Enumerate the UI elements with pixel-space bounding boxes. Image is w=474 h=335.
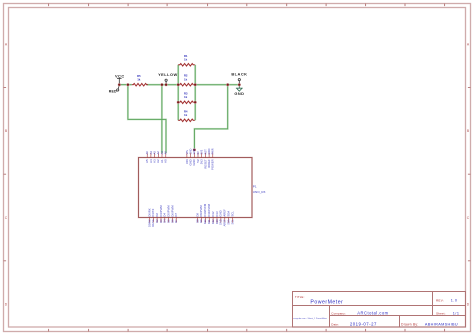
wire: net GND segment rail to BLACK [195,84,239,86]
svg-text:IORF: IORF [207,148,211,155]
svg-text:D6: D6 [170,219,174,223]
power flag VCC [117,78,122,84]
wire: main net VCC segment [119,84,132,86]
wire: GND branch down to GND pin [194,85,227,151]
svg-text:A3: A3 [153,151,157,155]
svg-text:C: C [5,216,8,220]
border ruler ticks bottom [49,329,445,332]
svg-text:SDA: SDA [227,219,231,225]
svg-text:D10: D10 [203,219,207,224]
svg-text:2019-07-27: 2019-07-27 [350,321,377,326]
svg-text:D2: D2 [155,219,159,223]
svg-text:A2: A2 [156,151,160,155]
svg-text:Drawn By:: Drawn By: [401,322,418,326]
svg-text:B: B [467,129,470,133]
title block frame [293,292,466,328]
border ruler ticks right [468,88,471,261]
title block texts [293,295,459,326]
svg-text:1.0: 1.0 [451,299,458,303]
pin YELLOW [165,79,167,85]
wire: left rail of resistor bank [177,65,179,121]
svg-text:YELLOW: YELLOW [158,72,178,77]
ground GND [236,85,243,92]
svg-text:GND: GND [189,149,193,155]
svg-text:POWER: POWER [211,159,215,170]
svg-text:GND: GND [192,149,196,155]
svg-text:1k: 1k [184,95,188,99]
border row letters right [467,43,470,307]
svg-text:D7: D7 [174,213,178,217]
svg-text:Company:: Company: [331,311,346,315]
svg-text:D5: D5 [167,219,171,223]
pins top-right power group [187,153,213,158]
pins top-left A5-A0 [147,153,166,158]
svg-text:D13: D13 [215,219,219,224]
pin RED [117,85,120,91]
svg-text:GND: GND [219,219,223,225]
svg-text:D7: D7 [174,219,178,223]
svg-text:easyeda.com - Sheet_1 PowerMet: easyeda.com - Sheet_1 PowerMeter [293,317,327,320]
pins bottom-right D8-SCL [198,218,233,223]
svg-text:D11: D11 [207,219,211,224]
svg-text:1k: 1k [184,57,188,61]
svg-text:UNO_R3: UNO_R3 [253,190,266,194]
wire: VCC branch down to pin A0 [128,85,166,154]
svg-text:A1: A1 [160,151,164,155]
svg-text:PWR: PWR [211,148,215,154]
svg-text:A0: A0 [164,151,168,155]
svg-text:3V3: 3V3 [200,149,204,154]
wire: right rail of resistor bank [194,65,196,121]
svg-text:C: C [467,216,470,220]
svg-text:D8: D8 [195,219,199,223]
svg-text:1/1: 1/1 [453,311,460,315]
resistor R3 [178,101,195,104]
border row letters left [5,43,8,307]
svg-text:GND: GND [234,91,244,96]
svg-text:A: A [5,43,8,47]
border ruler ticks left [4,88,7,261]
svg-text:D4: D4 [163,219,167,223]
svg-text:1k: 1k [184,77,188,81]
svg-text:A5: A5 [145,151,149,155]
svg-text:5V: 5V [196,151,200,154]
svg-text:ARCtotal.com: ARCtotal.com [357,311,388,316]
svg-text:P1: P1 [253,185,257,189]
resistor R2 [178,83,195,86]
svg-text:ABHIRAMSHIBU: ABHIRAMSHIBU [425,322,458,326]
svg-text:1k: 1k [184,113,188,117]
svg-text:D3: D3 [159,219,163,223]
svg-text:A4: A4 [149,151,153,155]
svg-text:AREF: AREF [223,219,227,226]
svg-text:A: A [467,43,470,47]
svg-text:SCL: SCL [230,219,234,225]
resistor R1 [178,64,195,67]
svg-text:D: D [467,302,470,306]
svg-text:VIN: VIN [185,150,189,154]
svg-text:D9: D9 [199,219,203,223]
svg-text:D0/RX: D0/RX [147,219,151,227]
svg-text:1k: 1k [137,77,141,81]
svg-text:TITLE:: TITLE: [295,295,305,299]
svg-text:Sheet:: Sheet: [436,311,446,315]
svg-text:D: D [5,302,8,306]
wire: net YELLOW segment R5 to rail [147,84,179,86]
pin BLACK [238,79,240,85]
svg-text:PowerMeter: PowerMeter [310,300,343,306]
svg-text:REV:: REV: [436,299,444,303]
svg-text:A0: A0 [164,159,168,163]
resistor R5 [132,83,148,86]
svg-text:D12: D12 [211,219,215,224]
svg-text:Date:: Date: [331,322,339,326]
svg-text:BLACK: BLACK [231,72,247,77]
border ruler ticks top [49,4,445,7]
svg-text:VCC: VCC [115,73,125,78]
resistor body halos [132,64,195,122]
svg-text:D1/TX: D1/TX [151,219,155,227]
svg-text:RST: RST [203,149,207,155]
svg-text:B: B [5,129,8,133]
svg-text:RED: RED [109,90,117,94]
wire halos (soft rendering of all green nets) [119,65,239,153]
wire: YELLOW branch down to pin A1 [161,85,163,154]
pins bottom-left D0-D7 [150,218,177,223]
resistor R4 [178,119,195,122]
junction node dots [118,83,241,151]
component P1 UNO_R3 body [139,158,253,218]
svg-text:SCL: SCL [230,211,234,217]
